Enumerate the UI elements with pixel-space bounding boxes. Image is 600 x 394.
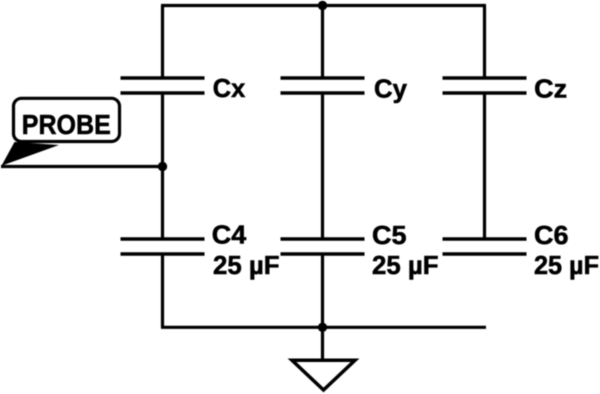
wire branch3 top bbox=[483, 6, 486, 78]
svg-text:Cz: Cz bbox=[534, 74, 567, 104]
wire branch1 top bbox=[161, 6, 164, 78]
svg-text:Cx: Cx bbox=[213, 73, 246, 103]
capacitor Cy bbox=[281, 78, 365, 93]
wire bottom rail bbox=[161, 326, 486, 329]
svg-text:PROBE: PROBE bbox=[22, 109, 111, 140]
capacitor C5 bbox=[281, 239, 365, 254]
wire branch1 bottom bbox=[161, 255, 164, 327]
svg-text:C6: C6 bbox=[534, 220, 569, 250]
svg-text:25 µF: 25 µF bbox=[372, 250, 439, 280]
probe callout tail bbox=[2, 142, 60, 166]
wire branch2 bottom bbox=[321, 255, 324, 327]
wire probe lead bbox=[1, 165, 163, 168]
svg-text:Cy: Cy bbox=[374, 73, 408, 103]
node top junction bbox=[318, 1, 327, 10]
wire branch1 lower bbox=[161, 167, 164, 239]
capacitor Cx bbox=[121, 78, 205, 93]
svg-text:C4: C4 bbox=[212, 220, 247, 250]
svg-text:C5: C5 bbox=[372, 220, 407, 250]
wire ground lead bbox=[321, 327, 324, 360]
svg-text:25 µF: 25 µF bbox=[534, 250, 599, 280]
wire branch2 middle bbox=[321, 94, 324, 238]
capacitor C6 bbox=[443, 239, 527, 254]
wire branch1 middle bbox=[161, 94, 164, 167]
probe callout box bbox=[14, 98, 120, 141]
wire branch3 middle bbox=[483, 94, 486, 238]
capacitor Cz bbox=[443, 78, 527, 93]
ground bbox=[292, 360, 355, 390]
wire top rail bbox=[161, 4, 486, 7]
node A probe junction bbox=[158, 162, 167, 171]
node bottom junction bbox=[318, 323, 327, 332]
wire branch2 top bbox=[321, 6, 324, 78]
capacitor C4 bbox=[121, 239, 205, 254]
svg-text:25 µF: 25 µF bbox=[213, 250, 280, 280]
